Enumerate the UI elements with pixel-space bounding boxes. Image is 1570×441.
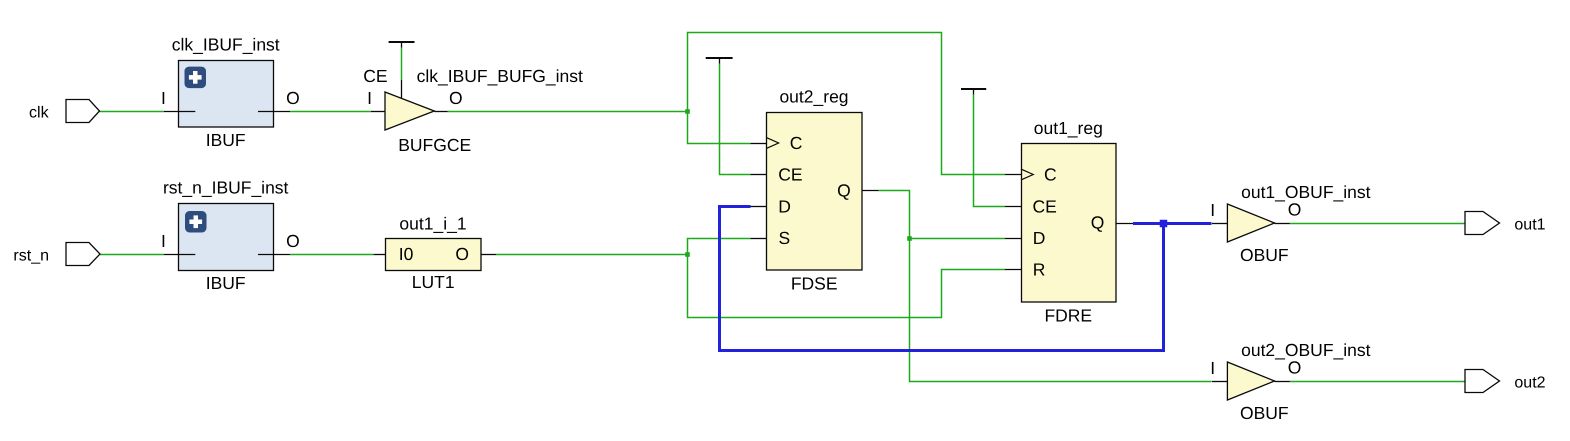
svg-text:D: D [778,197,791,217]
svg-text:OBUF: OBUF [1240,403,1289,423]
svg-text:R: R [1033,260,1046,280]
svg-text:I0: I0 [399,244,414,264]
svg-text:CE: CE [1033,197,1057,217]
svg-text:out1_reg: out1_reg [1034,118,1103,138]
svg-text:out1_OBUF_inst: out1_OBUF_inst [1241,182,1371,202]
svg-text:O: O [449,88,463,108]
svg-text:FDSE: FDSE [791,274,838,294]
svg-text:S: S [779,228,791,248]
svg-text:D: D [1033,228,1046,248]
svg-text:out1_i_1: out1_i_1 [399,214,466,234]
svg-text:FDRE: FDRE [1044,306,1092,326]
svg-text:Q: Q [1091,213,1105,233]
svg-text:O: O [286,231,300,251]
svg-text:C: C [1044,165,1057,185]
svg-text:out2_reg: out2_reg [779,87,848,107]
svg-text:CE: CE [778,165,802,185]
svg-text:clk_IBUF_inst: clk_IBUF_inst [172,35,280,55]
svg-text:I: I [161,88,166,108]
svg-text:O: O [1288,200,1302,220]
svg-text:rst_n_IBUF_inst: rst_n_IBUF_inst [163,178,289,198]
svg-text:I: I [1210,358,1215,378]
svg-text:clk_IBUF_BUFG_inst: clk_IBUF_BUFG_inst [417,66,583,86]
svg-text:out2_OBUF_inst: out2_OBUF_inst [1241,340,1371,360]
svg-text:clk: clk [29,105,50,122]
svg-text:out1: out1 [1514,217,1545,234]
svg-text:O: O [455,244,469,264]
svg-text:CE: CE [363,66,387,86]
svg-text:O: O [286,88,300,108]
svg-text:I: I [367,88,372,108]
svg-text:I: I [161,231,166,251]
svg-text:BUFGCE: BUFGCE [398,135,471,155]
svg-text:Q: Q [837,181,851,201]
svg-text:LUT1: LUT1 [412,272,455,292]
svg-text:out2: out2 [1514,375,1545,392]
svg-text:C: C [790,133,803,153]
svg-text:I: I [1210,200,1215,220]
svg-text:IBUF: IBUF [206,130,246,150]
svg-text:rst_n: rst_n [13,248,49,265]
svg-text:O: O [1288,358,1302,378]
svg-text:OBUF: OBUF [1240,245,1289,265]
svg-text:IBUF: IBUF [206,273,246,293]
